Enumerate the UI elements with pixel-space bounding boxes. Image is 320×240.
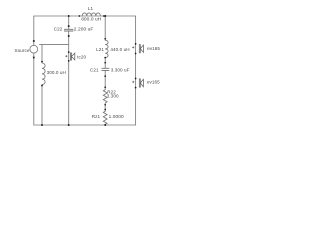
svg-text:C21: C21 xyxy=(90,68,99,73)
svg-text:C22: C22 xyxy=(54,26,63,31)
node C22 bottom terminal xyxy=(68,35,70,37)
svg-text:300.0 uH: 300.0 uH xyxy=(47,70,66,75)
svg-text:ev165: ev165 xyxy=(147,79,160,84)
plus woofer1 xyxy=(132,46,134,48)
node C21 terminals xyxy=(104,62,106,64)
plus woofer2 xyxy=(132,81,134,83)
node Rz1 top terminal xyxy=(104,109,106,111)
plus tweeter xyxy=(65,55,67,57)
svg-text:3.300 uF: 3.300 uF xyxy=(111,68,130,73)
wire left branch lower xyxy=(33,53,35,125)
svg-text:440.0 uH: 440.0 uH xyxy=(110,47,129,52)
svg-text:ev165: ev165 xyxy=(147,46,160,51)
inductor L21 xyxy=(105,40,108,57)
node source bottom terminal xyxy=(33,57,35,59)
wire left branch upper xyxy=(33,16,35,45)
speaker ev165 top icon xyxy=(139,45,143,53)
wire middle branch xyxy=(104,16,106,40)
wire top bus xyxy=(34,15,136,17)
inductor L1 xyxy=(82,13,100,16)
svg-text:3.300: 3.300 xyxy=(107,94,119,99)
svg-text:L21: L21 xyxy=(96,47,104,52)
wire right branch xyxy=(135,16,137,125)
svg-text:Rz1: Rz1 xyxy=(92,114,101,119)
wire bottom bus xyxy=(34,124,136,126)
node R22 terminals xyxy=(104,86,106,88)
node L1 right terminal / middle branch xyxy=(103,15,105,17)
speaker ev165 bottom icon xyxy=(139,79,143,87)
node middle branch at bus xyxy=(104,124,106,126)
capacitor C22 xyxy=(64,29,73,31)
wire 300uH branch lower xyxy=(41,85,43,125)
wire C22 branch xyxy=(68,16,70,29)
resistor Rz1 xyxy=(103,111,107,124)
inductor 300uH xyxy=(42,63,45,85)
source circle xyxy=(30,45,38,53)
node L21 terminals xyxy=(104,38,106,40)
labels xyxy=(14,6,160,120)
node top bus / C22 branch xyxy=(68,15,70,17)
svg-text:1.0000: 1.0000 xyxy=(109,114,124,120)
node 300uH terminals xyxy=(41,61,43,63)
node C22 top terminal xyxy=(68,25,70,27)
junction and terminal dots xyxy=(33,15,137,126)
resistor R22 xyxy=(103,90,107,103)
node source top terminal xyxy=(33,40,35,42)
speaker tc20 icon xyxy=(70,53,74,60)
plus marks xyxy=(65,46,134,83)
node woofer2 terminals xyxy=(135,78,137,80)
svg-text:Source: Source xyxy=(14,48,29,53)
node woofer1 terminals xyxy=(135,43,137,45)
svg-text:tc20: tc20 xyxy=(77,54,86,59)
node L1 left terminal xyxy=(79,15,81,17)
node tweeter terminals xyxy=(68,51,70,53)
svg-text:L1: L1 xyxy=(88,6,94,11)
node 300uH at bus xyxy=(41,124,43,126)
node C22 branch at bus xyxy=(68,124,70,126)
capacitor C21 xyxy=(102,68,110,70)
wire 300uH branch upper xyxy=(41,44,43,63)
svg-text:800.0 uH: 800.0 uH xyxy=(81,16,102,22)
wire tap to 300uH xyxy=(40,43,69,45)
svg-text:2.200 uF: 2.200 uF xyxy=(74,26,94,32)
